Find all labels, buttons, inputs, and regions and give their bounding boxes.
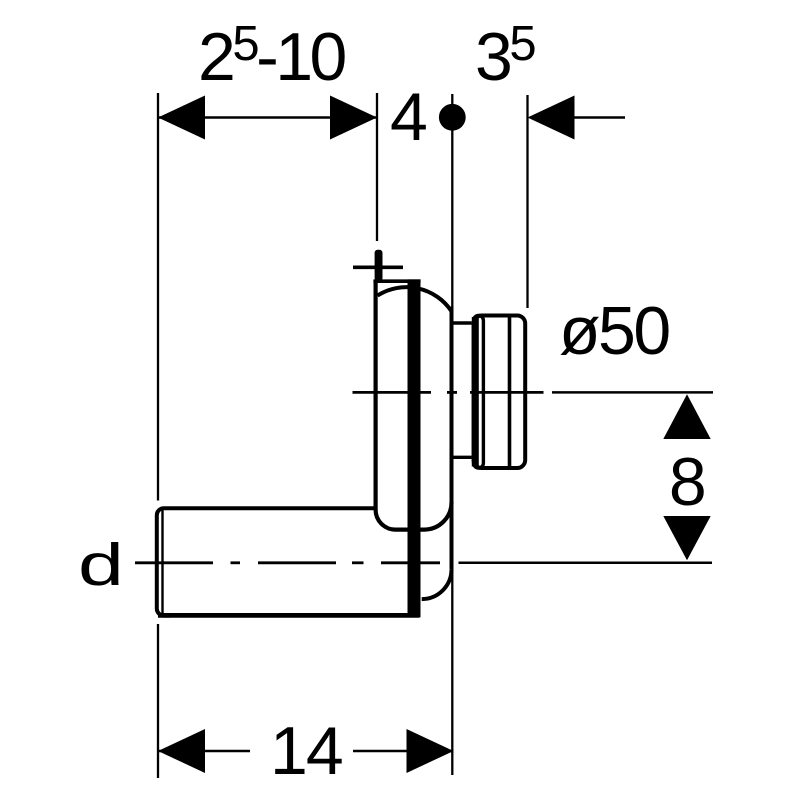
svg-text:14: 14 xyxy=(270,713,342,789)
svg-text:8: 8 xyxy=(669,444,704,520)
svg-text:25-10: 25-10 xyxy=(198,17,346,95)
svg-text:d: d xyxy=(78,532,120,598)
svg-text:4: 4 xyxy=(390,79,426,155)
svg-text:ø50: ø50 xyxy=(559,293,669,369)
